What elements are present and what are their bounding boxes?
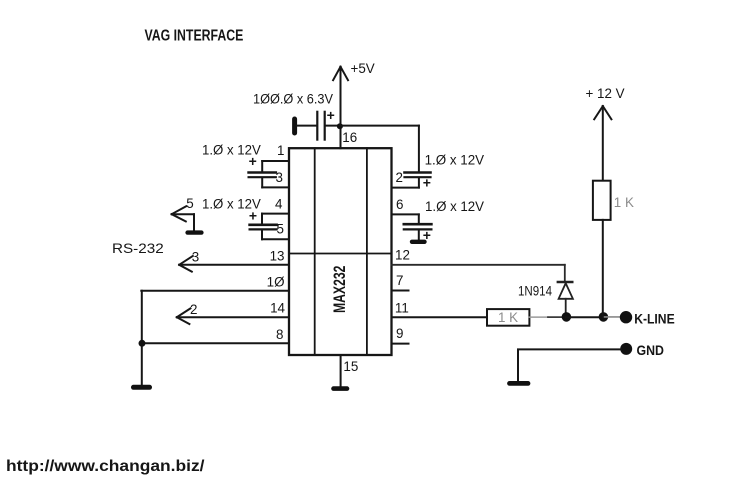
wire to K-LINE terminal [603, 316, 621, 318]
capacitor C4 plates [404, 224, 432, 229]
pin 13 wire with arrow 3 [179, 256, 289, 272]
svg-text:1: 1 [277, 143, 284, 158]
C3 riser top [418, 126, 420, 172]
svg-text:1ØØ.Ø x 6.3V: 1ØØ.Ø x 6.3V [253, 91, 333, 106]
pin 7 stub [392, 290, 409, 292]
capacitor C1 riser top [261, 161, 263, 172]
C1 riser bottom [261, 178, 263, 187]
node +12V power arrow [594, 106, 611, 181]
svg-text:8: 8 [276, 327, 283, 342]
ground bar at arrow 5 [188, 230, 202, 234]
pin 5 wire [262, 238, 289, 240]
svg-text:13: 13 [270, 249, 285, 264]
svg-text:1N914: 1N914 [518, 283, 552, 298]
svg-text:11: 11 [395, 301, 409, 316]
op-amp U1 MAX232 body [289, 148, 392, 355]
svg-text:1.Ø x 12V: 1.Ø x 12V [425, 199, 484, 214]
junction dot diode/K-line [562, 312, 572, 322]
wire R2 to diode node [529, 316, 548, 318]
svg-text:5: 5 [186, 196, 193, 211]
svg-text:3: 3 [276, 170, 283, 185]
resistor R1 1K vertical [593, 181, 611, 220]
svg-text:14: 14 [270, 301, 285, 316]
pin 1 wire [262, 160, 289, 162]
svg-text:1Ø: 1Ø [267, 274, 285, 289]
pin 9 stub [392, 343, 409, 345]
svg-text:1.Ø x 12V: 1.Ø x 12V [425, 152, 485, 167]
capacitor C2 riser top [261, 214, 263, 224]
ground bar RS-232 [134, 385, 150, 390]
wire pin12 down to diode [564, 265, 566, 282]
C2 riser bottom [261, 230, 263, 239]
svg-text:1.Ø x 12V: 1.Ø x 12V [202, 196, 261, 211]
svg-text:RS-232: RS-232 [112, 240, 164, 256]
ground bar at C4 [412, 240, 425, 244]
capacitor C5 100.0x6.3V ground bar [292, 119, 297, 133]
capacitor C3 riser bottom [418, 178, 420, 188]
node +5V power arrow [333, 67, 348, 149]
C4 riser bottom [418, 230, 420, 240]
svg-text:+: + [327, 107, 335, 123]
connector arrow 5 [172, 206, 194, 230]
capacitor C5 plates [317, 112, 324, 140]
svg-text:K-LINE: K-LINE [634, 311, 675, 327]
svg-text:5: 5 [277, 222, 284, 237]
capacitor C3 plates [405, 173, 431, 178]
pin 10 wire [141, 290, 289, 292]
svg-text:1 K: 1 K [614, 195, 634, 210]
capacitor C2 plates [250, 225, 277, 230]
svg-text:+5V: +5V [351, 61, 375, 76]
junction dot pin8/ground [139, 340, 146, 347]
wire GND down [517, 350, 519, 382]
svg-text:MAX232: MAX232 [330, 266, 349, 314]
svg-text:VAG INTERFACE: VAG INTERFACE [145, 27, 244, 44]
wire RS-232 ground vertical [141, 291, 143, 385]
svg-text:7: 7 [396, 273, 403, 288]
capacitor C1 plates [249, 173, 276, 178]
wire R1 to K-line node [602, 220, 604, 317]
pin 4 wire [262, 213, 289, 215]
svg-text:+ 12 V: + 12 V [586, 86, 625, 101]
svg-text:1 K: 1 K [498, 310, 518, 325]
svg-text:12: 12 [395, 248, 410, 263]
pin 15 wire [340, 355, 342, 386]
wire +5V rail to C3 riser [341, 125, 419, 127]
pin 11 wire [392, 316, 488, 318]
svg-text:16: 16 [342, 130, 357, 145]
wire from bar to C5 [297, 125, 316, 127]
junction dot at +5V rail [337, 123, 343, 129]
wire C5 to +5V node [326, 125, 341, 127]
ground bar GND [510, 381, 529, 386]
diode D1 1N914 [558, 282, 573, 317]
svg-text:15: 15 [343, 359, 358, 374]
pin 14 wire with arrow 2 [177, 308, 289, 324]
pin 2 wire [392, 187, 419, 189]
pin 6 wire [392, 213, 419, 215]
ground bar at pin 15 [334, 386, 348, 391]
svg-text:3: 3 [192, 250, 199, 265]
wire GND left [518, 348, 621, 350]
svg-text:GND: GND [637, 342, 665, 358]
svg-text:2: 2 [396, 170, 403, 185]
wire to 12V branch [566, 316, 603, 318]
svg-text:4: 4 [275, 196, 283, 211]
svg-text:2: 2 [190, 302, 197, 317]
svg-text:9: 9 [396, 326, 403, 341]
resistor R2 1K horizontal [487, 309, 529, 326]
pin 3 wire [262, 186, 289, 188]
pin 8 wire [141, 342, 289, 344]
svg-text:http://www.changan.biz/: http://www.changan.biz/ [6, 458, 205, 475]
capacitor C4 riser top [418, 214, 420, 223]
K-LINE terminal dot [620, 311, 632, 323]
svg-text:+: + [423, 175, 431, 191]
svg-text:1.Ø x 12V: 1.Ø x 12V [202, 142, 261, 157]
GND terminal dot [620, 343, 632, 355]
pin 12 wire [392, 264, 565, 266]
svg-text:6: 6 [396, 197, 403, 212]
junction dot 12V branch [599, 312, 609, 322]
